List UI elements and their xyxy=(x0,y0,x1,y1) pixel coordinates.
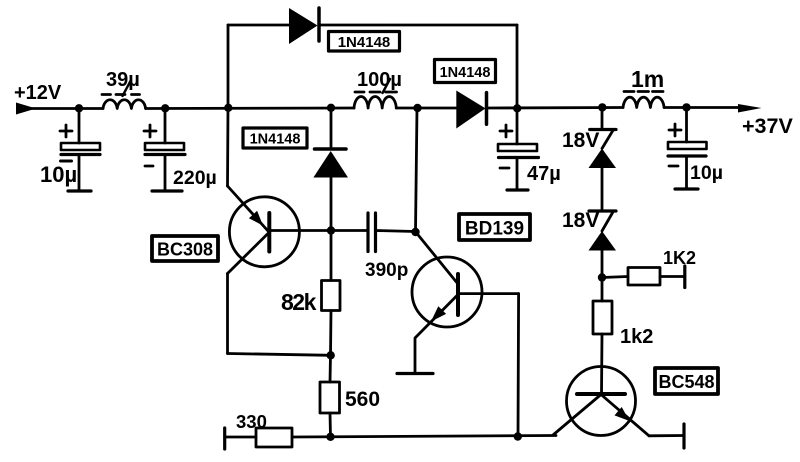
diode D1 1N4148 xyxy=(289,8,318,44)
inductor L3 1m xyxy=(623,97,664,107)
capacitor C3 top plate xyxy=(498,144,537,151)
diode D3 1N4148 xyxy=(456,91,485,129)
resistor R1 lower lead xyxy=(329,311,332,356)
node H xyxy=(682,103,690,111)
svg-text:390p: 390p xyxy=(365,260,408,281)
capacitor C2 bottom plate xyxy=(145,153,185,156)
resistor R4 terminal bar xyxy=(683,266,686,288)
node feedback xyxy=(327,351,335,359)
node G xyxy=(598,103,606,111)
transistor Q1 collector lead xyxy=(228,233,269,274)
svg-text:18V: 18V xyxy=(562,129,599,152)
inductor L1 core dashes xyxy=(102,93,111,96)
wire top branch vertical left xyxy=(227,25,230,108)
resistor R1 82k xyxy=(322,281,341,311)
svg-text:1N4148: 1N4148 xyxy=(250,132,301,148)
resistor R1 82k upper lead xyxy=(330,231,333,281)
capacitor C1 minus sign xyxy=(61,160,72,163)
capacitor C2 220u lead xyxy=(164,109,167,144)
resistor R2 lower lead xyxy=(329,413,332,437)
capacitor C4 bottom plate xyxy=(668,154,706,157)
zener ZD2 lower lead xyxy=(601,251,604,278)
svg-text:330: 330 xyxy=(236,411,267,432)
resistor R5 1k2 xyxy=(593,301,612,334)
transistor Q3 base bar xyxy=(577,392,625,396)
transistor Q3 emitter arrow xyxy=(615,407,630,421)
zener ZD2 18V xyxy=(589,209,616,212)
capacitor C3 47u lead xyxy=(516,109,519,145)
node A xyxy=(75,104,83,112)
resistor R3 330 xyxy=(256,428,292,447)
inductor L3 core dashes xyxy=(624,90,634,93)
svg-text:1N4148: 1N4148 xyxy=(338,34,391,51)
resistor R2 560 upper lead xyxy=(329,355,332,382)
transistor Q2 collector lead xyxy=(458,292,519,295)
capacitor C2 end bar xyxy=(152,189,182,192)
capacitor C4 lower lead xyxy=(685,156,688,189)
label box BC308 xyxy=(152,236,218,261)
svg-text:18V: 18V xyxy=(562,209,599,232)
capacitor C1 10u lead xyxy=(78,109,81,144)
transistor Q2 emitter lead xyxy=(415,295,458,374)
wire mu tail 39u xyxy=(123,80,132,96)
wire rail segment between L1 and L2 xyxy=(146,107,354,110)
inductor L2 100u xyxy=(354,97,396,108)
transistor Q1 BC308 emitter lead xyxy=(226,108,229,187)
svg-text:220µ: 220µ xyxy=(173,167,217,189)
wire top branch horizontal left xyxy=(228,24,289,27)
svg-text:47µ: 47µ xyxy=(527,163,561,185)
resistor R4 1K2 horizontal left lead xyxy=(602,277,628,278)
wire between zeners xyxy=(601,168,604,211)
label box BD139 xyxy=(459,214,530,240)
transistor Q3 emitter terminal bar xyxy=(682,424,685,448)
svg-text:BC308: BC308 xyxy=(157,240,213,260)
diode D2 lower lead xyxy=(330,178,333,231)
diode D1 label box 1N4148 xyxy=(329,32,400,52)
svg-text:1N4148: 1N4148 xyxy=(440,65,491,81)
wire mu tail 100u xyxy=(383,79,391,93)
inductor L2 core dashes xyxy=(355,91,364,94)
node B xyxy=(161,104,169,112)
capacitor C5 390p left lead xyxy=(331,229,368,232)
transistor Q2 BD139 base lead xyxy=(417,233,459,284)
transistor Q1 BC308 circle xyxy=(229,197,299,267)
resistor R4 right lead xyxy=(660,275,685,278)
node D xyxy=(327,104,335,112)
capacitor C3 bottom plate xyxy=(499,156,539,159)
node base Q2 xyxy=(411,228,419,236)
node E xyxy=(413,104,421,112)
capacitor C2 plus sign xyxy=(144,130,156,133)
svg-text:1K2: 1K2 xyxy=(663,248,696,268)
capacitor C1 top plate xyxy=(61,143,100,150)
transistor Q2 emitter arrow xyxy=(431,306,446,321)
wire rail right segment xyxy=(664,106,740,109)
capacitor C4 10u lead xyxy=(685,108,688,143)
wire node E vertical xyxy=(416,108,418,232)
diode D2 label box 1N4148 xyxy=(243,128,307,148)
svg-text:10µ: 10µ xyxy=(690,162,723,184)
capacitor C3 end bar xyxy=(507,188,528,191)
wire D2 upper lead xyxy=(330,108,333,148)
ground BD139 emitter xyxy=(397,372,433,375)
transistor Q3 emitter lead xyxy=(601,395,649,436)
wire top branch horizontal right xyxy=(321,24,518,27)
wire feedback horizontal xyxy=(228,354,331,356)
node zener bottom xyxy=(598,273,606,281)
diode D2 1N4148 vertical xyxy=(315,147,347,151)
node base Q1 xyxy=(327,226,335,234)
capacitor C4 end bar xyxy=(675,187,698,190)
resistor R2 560 xyxy=(320,382,340,413)
capacitor C1 end bar xyxy=(68,189,91,192)
svg-text:BD139: BD139 xyxy=(465,219,524,240)
+12V input arrow xyxy=(16,103,36,115)
resistor R5 1k2 vertical upper lead xyxy=(601,278,604,302)
capacitor C3 minus sign xyxy=(500,167,509,170)
node C xyxy=(224,104,232,112)
capacitor C1 lower lead xyxy=(78,155,81,192)
diode D3 label box 1N4148 xyxy=(435,60,496,83)
zener ZD1 18V xyxy=(590,128,616,131)
svg-text:100µ: 100µ xyxy=(357,69,402,91)
svg-text:+12V: +12V xyxy=(14,82,62,104)
svg-text:560: 560 xyxy=(345,388,380,411)
wire top branch vertical right xyxy=(516,25,519,108)
capacitor C4 minus sign xyxy=(669,165,678,168)
capacitor C5 390p plates xyxy=(366,213,369,252)
transistor Q3 BC548 circle xyxy=(567,367,636,436)
capacitor C2 minus sign xyxy=(145,165,153,168)
resistor R4 1K2 xyxy=(628,268,660,286)
transistor Q3 collector lead xyxy=(553,395,601,436)
transistor Q2 base bar xyxy=(456,274,460,315)
transistor Q2 BD139 circle xyxy=(412,257,482,327)
wire bottom rail xyxy=(292,436,556,438)
node F xyxy=(513,104,521,112)
transistor Q1 base lead xyxy=(269,229,331,232)
svg-text:1m: 1m xyxy=(631,66,664,92)
zener ZD1 upper lead xyxy=(601,108,604,130)
svg-text:BC548: BC548 xyxy=(658,372,714,392)
wire rail left segment xyxy=(30,107,103,110)
capacitor C3 lower lead xyxy=(516,158,519,191)
capacitor C3 plus sign xyxy=(500,130,512,133)
svg-text:39µ: 39µ xyxy=(106,69,140,91)
capacitor C1 bottom plate xyxy=(61,153,100,156)
transistor Q1 emitter arrow xyxy=(249,211,263,226)
label box BC548 xyxy=(655,368,718,394)
svg-text:10µ: 10µ xyxy=(40,162,77,187)
node bottom rail right xyxy=(514,432,522,440)
capacitor C4 plus sign xyxy=(669,129,681,132)
transistor Q1 base bar xyxy=(267,213,271,252)
svg-text:+37V: +37V xyxy=(742,114,793,138)
node bottom rail left xyxy=(326,433,334,441)
+37V output arrow xyxy=(738,104,762,113)
svg-text:82k: 82k xyxy=(281,289,317,315)
capacitor C5 390p right lead xyxy=(376,231,416,232)
resistor R3 330 input bar xyxy=(223,428,226,449)
svg-text:1k2: 1k2 xyxy=(620,326,653,348)
capacitor C4 top plate xyxy=(668,142,707,149)
resistor R5 lower lead xyxy=(600,334,603,394)
capacitor C1 plus sign xyxy=(60,130,72,133)
wire rail segment between D3 and L3 xyxy=(488,106,623,109)
wire rail segment between L2 and D3 xyxy=(396,107,456,110)
resistor R3 330 left lead xyxy=(225,436,256,439)
capacitor C2 top plate xyxy=(145,143,184,150)
inductor L1 39u xyxy=(103,100,146,109)
capacitor C2 lower lead xyxy=(164,155,167,192)
